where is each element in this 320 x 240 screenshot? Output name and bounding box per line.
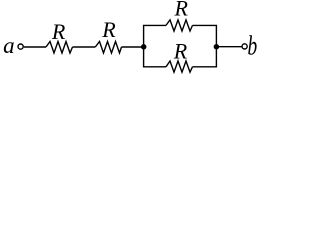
junction dot right: [214, 44, 220, 50]
svg-text:R: R: [173, 39, 188, 64]
wire a to R1: [24, 46, 46, 48]
wire left vertical with corners to branches: [144, 25, 166, 66]
terminal b: [242, 44, 247, 49]
svg-text:R: R: [101, 17, 116, 42]
wire right vertical with corners to branches: [193, 25, 217, 66]
junction dot left: [141, 44, 147, 50]
svg-text:b: b: [247, 32, 257, 62]
svg-text:a: a: [3, 33, 15, 58]
svg-text:R: R: [51, 19, 66, 44]
wire R1 to R2: [73, 46, 96, 48]
resistor R bottom: [166, 61, 193, 72]
resistor R1: [46, 42, 73, 54]
terminal a: [18, 44, 23, 49]
svg-text:R: R: [173, 0, 188, 21]
resistor R top: [166, 20, 193, 31]
wire R2 to left junction: [122, 46, 144, 48]
resistor R2: [95, 42, 121, 54]
wire right junction to terminal b: [216, 46, 241, 48]
